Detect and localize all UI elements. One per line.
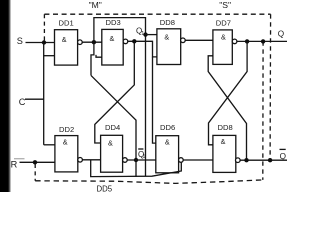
- gate DD7 output bubble: [232, 39, 237, 44]
- svg-text:&: &: [221, 33, 226, 42]
- svg-text:"S": "S": [219, 0, 231, 10]
- node J5 dot M1 to DD8: [143, 32, 147, 36]
- stage boundary dashed box left edge lower: [34, 164, 36, 181]
- wire S input: [26, 42, 55, 44]
- gate DD8 slave top box: [157, 29, 181, 65]
- node Qbar1 dot: [134, 158, 138, 162]
- svg-text:DD5: DD5: [97, 184, 113, 192]
- wire Qbar1 from DD4 out to DD6 in2: [127, 159, 156, 161]
- stage boundary dashed box top edge: [44, 13, 270, 15]
- gate DD1 box: [55, 30, 78, 65]
- wire C vertical trunk: [43, 43, 45, 145]
- wire DD6 out to DD8b in2: [183, 159, 213, 161]
- gate DD1 output bubble: [78, 40, 83, 45]
- svg-text:DD2: DD2: [59, 125, 74, 134]
- svg-text:&: &: [164, 33, 169, 42]
- svg-text:Q: Q: [278, 29, 284, 38]
- svg-text:DD6: DD6: [160, 123, 175, 132]
- gate DD2 output bubble: [78, 158, 83, 163]
- wire J1 staircase stub: [91, 42, 94, 75]
- wire Qbar output: [240, 159, 287, 161]
- wire DD2 out to DD4 in2: [82, 159, 100, 161]
- wire Q output: [237, 40, 287, 42]
- svg-text:1: 1: [142, 154, 145, 160]
- svg-text:Q: Q: [280, 152, 286, 161]
- stage boundary dashed inner vertical at Q output: [262, 41, 264, 180]
- node Qbar feedback dot: [244, 158, 248, 162]
- node J1 dot DD1 output: [92, 40, 96, 44]
- stage boundary dashed right edge outer: [269, 14, 272, 160]
- wire DD7 input 2 from Qbar cross diagonal: [208, 56, 246, 160]
- svg-text:DD8: DD8: [218, 123, 233, 132]
- gate DD6 output bubble: [179, 158, 184, 163]
- gate DD8 slave bottom box: [213, 135, 236, 172]
- wire C input: [25, 98, 44, 100]
- wire M2 bottom link to DD6 output: [91, 160, 182, 176]
- wire Qbar1 to DD3 input 2: [96, 55, 102, 57]
- wire master cross diagonal Qbar1: [91, 75, 136, 176]
- node S branch dot: [42, 40, 46, 44]
- wire M1 riser and top link: [94, 18, 146, 177]
- svg-text:S: S: [17, 36, 23, 46]
- svg-text:DD1: DD1: [59, 19, 74, 28]
- wire M1 to DD8 input 1: [146, 34, 157, 36]
- svg-text:&: &: [63, 138, 68, 147]
- node Q outer dot: [261, 39, 265, 43]
- svg-text:"M": "M": [89, 0, 102, 10]
- svg-text:DD4: DD4: [105, 123, 120, 132]
- gate DD4 box: [101, 135, 123, 172]
- gate DD8 bottom output bubble: [236, 158, 241, 163]
- svg-text:&: &: [110, 34, 115, 43]
- node Q1 dot: [132, 39, 136, 43]
- svg-text:DD3: DD3: [106, 18, 121, 27]
- gate DD6 box: [156, 136, 179, 173]
- svg-text:1: 1: [141, 31, 144, 37]
- stage boundary dashed box left edge upper: [43, 14, 45, 40]
- svg-text:DD7: DD7: [216, 19, 231, 28]
- node Qbar outer dot: [268, 158, 272, 162]
- svg-text:&: &: [221, 137, 226, 146]
- gate DD3 box: [102, 29, 123, 65]
- wire DD8 out to DD7 in1: [185, 39, 213, 41]
- node Q feedback dot: [245, 39, 249, 43]
- gate DD3 output bubble: [123, 39, 128, 44]
- stage boundary dashed box bottom edge: [35, 180, 263, 184]
- wire Q1 from DD3 out: [128, 41, 157, 57]
- gate DD7 box: [213, 30, 232, 65]
- svg-text:&: &: [62, 35, 67, 44]
- wire Q1 to DD4 input 1 cross diagonal: [95, 41, 135, 143]
- wire DD1 out to DD3 in1: [82, 41, 102, 43]
- gate DD4 output bubble: [123, 158, 128, 163]
- wire R input: [20, 161, 55, 163]
- wire C to DD2 input 1: [44, 144, 55, 146]
- gate DD8 top output bubble: [181, 38, 186, 43]
- svg-text:DD8: DD8: [160, 18, 175, 27]
- svg-text:&: &: [108, 138, 113, 147]
- wire C to DD1 input 2: [44, 55, 55, 57]
- svg-text:R: R: [11, 160, 18, 170]
- scan black border bar: [0, 0, 9, 192]
- wire Q to DD8b input 1 cross diagonal: [209, 41, 248, 144]
- gate DD2 box: [55, 136, 78, 172]
- svg-text:C: C: [19, 97, 26, 107]
- svg-text:&: &: [165, 138, 170, 147]
- wire Q1 branch down to DD6 input 1: [153, 57, 156, 143]
- node R dot: [33, 160, 37, 164]
- label Qbar1 overbar: [138, 148, 143, 150]
- output Qbar overbar: [280, 148, 286, 150]
- label R overbar: [14, 158, 25, 160]
